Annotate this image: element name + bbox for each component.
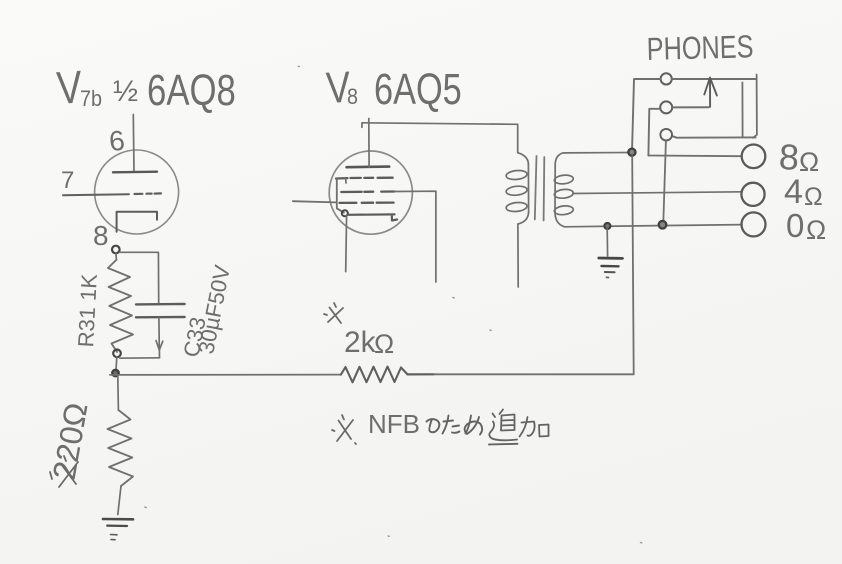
wire plate to transformer primary — [362, 123, 518, 128]
wire 220 ohm to ground — [118, 486, 121, 515]
grid row 3 V8 (dashed) with left lead — [293, 201, 336, 202]
long NFB horizontal wire left segment — [110, 374, 341, 376]
pin 8 node ring — [112, 246, 120, 254]
cathode node ring V8 — [342, 210, 348, 216]
ground tap junction dot — [604, 223, 610, 229]
terminal 0 ohm — [742, 212, 766, 236]
tube V7b envelope — [95, 150, 179, 234]
ground (transformer) — [599, 257, 623, 260]
resistor R31 1K — [108, 260, 133, 352]
svg-text:PHONES: PHONES — [646, 29, 754, 67]
NFB vertical wire — [632, 156, 634, 374]
grid V7b (dashed) with pin 7 lead — [63, 194, 129, 195]
svg-text:R31 1K: R31 1K — [73, 273, 102, 348]
wire tap to ground — [606, 229, 608, 256]
switch arrow — [704, 78, 717, 107]
grid right lead down — [395, 191, 436, 282]
wire C33 bottom with arrowhead — [156, 318, 163, 351]
svg-text:6: 6 — [107, 125, 126, 157]
svg-text:6AQ8: 6AQ8 — [147, 66, 236, 115]
transformer primary lead top — [518, 124, 529, 164]
cathode V8 — [348, 214, 397, 220]
paper specks — [145, 66, 642, 543]
transformer primary lead bottom — [518, 212, 529, 287]
reference mark for 220 ohm — [50, 456, 78, 487]
pin 6 lead — [132, 115, 135, 173]
jack right inner vertical — [741, 82, 743, 137]
wire contact1 left and down (NFB vertical) — [632, 79, 661, 152]
kanji tsui (追) — [489, 410, 517, 441]
svg-text:2k: 2k — [344, 326, 377, 359]
jack contact 2 (switch) — [660, 101, 672, 113]
transformer primary winding — [527, 164, 529, 212]
4 ohm tap wire — [573, 192, 742, 194]
svg-text:Ω: Ω — [806, 215, 826, 245]
NFB horizontal wire right segment — [408, 373, 435, 375]
transformer secondary winding — [555, 153, 565, 165]
grid bracket V8 — [337, 178, 344, 213]
grid row 1 V8 (dashed) — [336, 177, 393, 180]
underline below tsui — [489, 443, 518, 446]
wire R31 bottom to C33 bottom — [120, 357, 160, 359]
svg-text:7b: 7b — [80, 87, 102, 111]
svg-text:4: 4 — [784, 173, 803, 211]
node ring bottom of R31 — [113, 350, 121, 358]
junction dot on 0 ohm line — [659, 221, 667, 229]
terminal 8 ohm — [742, 145, 766, 169]
hiragana ta — [443, 416, 460, 434]
kanji ka (加) — [520, 417, 549, 437]
svg-text:0: 0 — [786, 207, 804, 244]
grid row 2 V8 (dashed) with right lead — [341, 190, 394, 193]
jack right outer vertical — [753, 75, 757, 138]
hiragana no — [427, 419, 440, 432]
secondary top wire to junction — [565, 152, 630, 154]
terminal 4 ohm — [741, 183, 764, 206]
wire node to junction — [115, 357, 118, 371]
svg-text:8: 8 — [347, 85, 358, 109]
resistor 2k ohm — [341, 367, 408, 383]
transformer core — [535, 156, 545, 221]
cathode V7b — [117, 212, 157, 232]
svg-text:NFB: NFB — [368, 409, 420, 439]
svg-text:Ω: Ω — [804, 183, 823, 211]
svg-text:8: 8 — [778, 136, 800, 178]
tube V8 envelope — [329, 151, 412, 234]
junction dot — [112, 370, 118, 376]
cathode lead V8 down — [345, 215, 348, 272]
capacitor C33 bottom plate — [136, 316, 185, 319]
wire junction down — [117, 377, 120, 411]
reference mark for 2k — [324, 303, 343, 323]
jack bottom horizontal — [673, 136, 756, 138]
tube V7b label — [55, 61, 236, 115]
svg-text:½: ½ — [113, 75, 138, 108]
transformer secondary lead bottom — [555, 213, 565, 227]
note reference mark — [332, 415, 356, 444]
wire contact1 right — [672, 78, 757, 80]
hiragana me — [465, 416, 483, 435]
wire contact2 left down to 8 ohm line — [648, 109, 660, 156]
plate lead V8 — [368, 119, 370, 168]
0 ohm tap wire — [565, 225, 743, 227]
plate V8 — [347, 165, 390, 168]
svg-text:8: 8 — [93, 220, 109, 251]
wire node to resistor — [115, 253, 117, 260]
capacitor C33 top plate — [136, 303, 185, 306]
svg-text:Ω: Ω — [374, 329, 394, 359]
resistor 220 ohm — [108, 410, 134, 486]
junction dot at secondary top — [628, 149, 635, 156]
svg-text:7: 7 — [61, 167, 74, 194]
wire branch to C33 — [119, 252, 158, 303]
ground (left) — [103, 518, 133, 521]
wire contact3 down to 0 ohm line — [663, 141, 666, 223]
wire contact2 right to arrow — [672, 106, 709, 108]
tube V8 label — [325, 62, 462, 114]
jack contact 3 (sleeve) — [660, 129, 672, 141]
svg-text:6AQ5: 6AQ5 — [374, 65, 462, 114]
8 ohm wire — [648, 155, 741, 158]
jack contact 1 (tip) — [661, 73, 672, 84]
plate V7b — [113, 170, 157, 173]
